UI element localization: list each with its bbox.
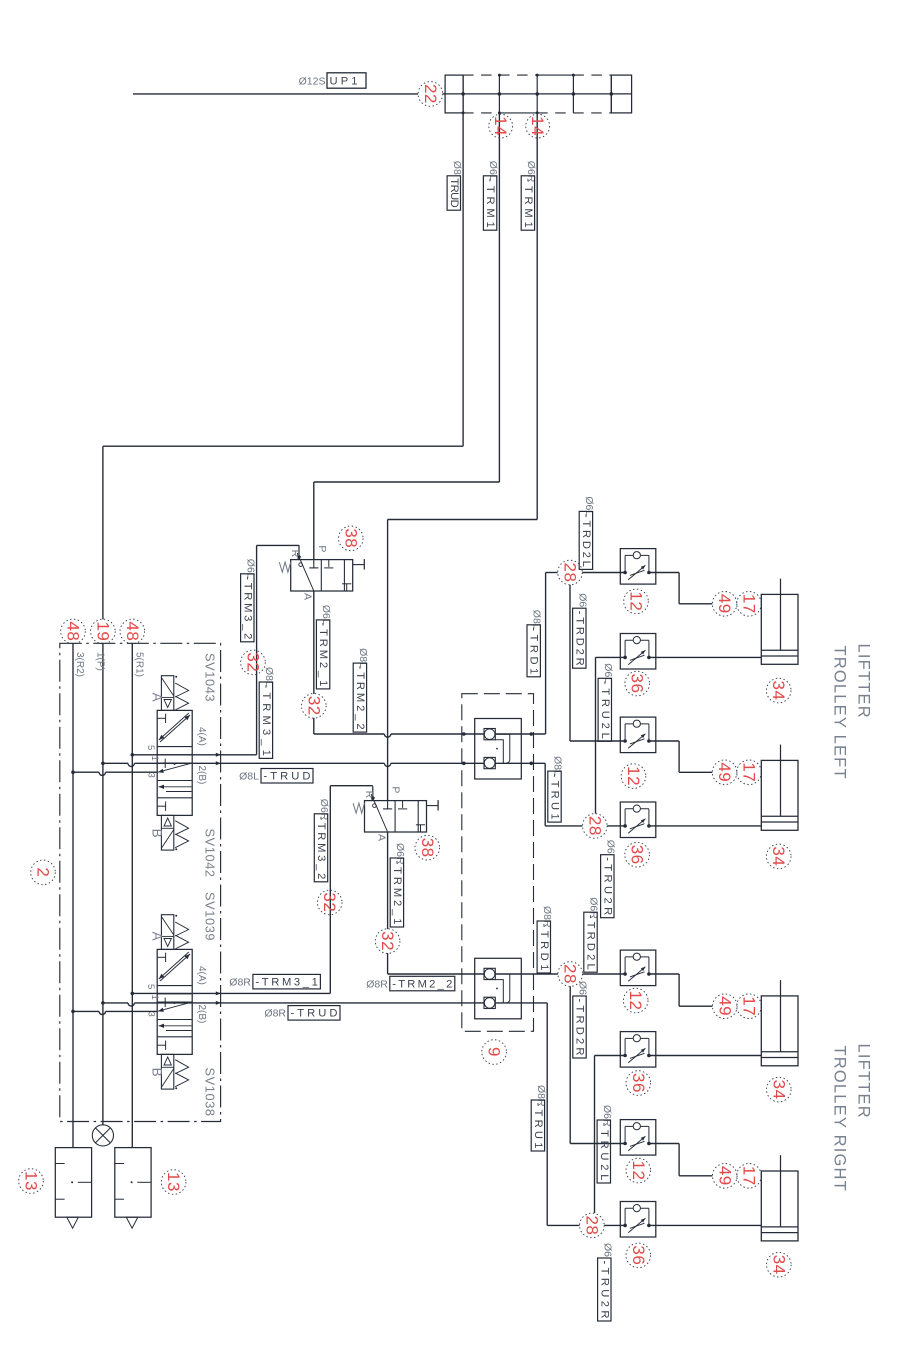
svg-text:34: 34 [769, 1255, 788, 1275]
flow control valve R-TRD2L body [620, 950, 656, 986]
wire R-TRM3_1 riser [329, 786, 331, 994]
flow control valve L-TRD2L body [620, 549, 656, 585]
svg-text:LIFTTER: LIFTTER [855, 644, 873, 719]
wire TRUD down to P header [102, 446, 104, 619]
svg-text:Ø8L: Ø8L [239, 771, 259, 783]
flow control valve R-TRU2L throttle arrow [628, 1048, 645, 1063]
wire L-TRU1 to balloon 28 [545, 825, 582, 827]
silencer left internals [55, 1163, 64, 1165]
svg-text:Ø8R: Ø8R [264, 1008, 286, 1020]
svg-text:49: 49 [715, 594, 734, 614]
valve 38 lower internal P blocked symbol [387, 801, 389, 809]
label Ø6 R-TRU2R [598, 1243, 614, 1321]
svg-text:22: 22 [421, 84, 440, 104]
flow control valve L-TRD2R bypass check [624, 724, 626, 741]
flow control valve L-TRU2R throttle arrow [628, 819, 645, 834]
wire R-TRU1 to balloon 28 [547, 1224, 579, 1226]
port 1 T symbol SV1043 [158, 762, 165, 764]
wire L-TRD2R drop [569, 585, 571, 741]
flow control valve L-TRU2L throttle arrow [628, 650, 645, 665]
valve body SV1043/SV1042 [157, 710, 192, 815]
svg-text:14: 14 [528, 116, 547, 136]
supply line to manifold [133, 93, 418, 95]
wire L-TRU1 down [544, 763, 546, 826]
svg-text:-TRM2_1: -TRM2_1 [317, 622, 329, 686]
check valve lower lower cartridge [484, 997, 495, 1008]
wire flow control to cylinder 4 cap [649, 1143, 679, 1145]
label Ø8 L-TRM2_2 [353, 648, 369, 732]
balloon 36 [626, 1071, 651, 1096]
wire R-TRU2L riser [594, 1056, 596, 1214]
check block upper internal piping [495, 734, 510, 763]
wire L-TRD2R to flow control [570, 740, 625, 742]
label Ø8 TRUD [447, 161, 463, 210]
label Ø6 L-TRD2R [573, 593, 589, 668]
crossed flow arrows SV1039 [160, 954, 190, 981]
balloon 17 [737, 994, 762, 1019]
return spring of solenoid A SV1039 [175, 922, 188, 949]
wire R-TRM2_2 down [387, 953, 389, 974]
balloon 12 [626, 1158, 651, 1183]
port 1 T symbol SV1039 [158, 1001, 165, 1003]
svg-text:1: 1 [149, 756, 160, 761]
balloon 28 fitting L-TRU [583, 814, 608, 839]
svg-text:-TRD2R: -TRD2R [573, 611, 585, 666]
svg-text:36: 36 [628, 845, 647, 865]
wire R-TRM2_2 to check block [388, 973, 484, 975]
svg-text:1: 1 [149, 995, 160, 1000]
label Ø6 R-TRD2R [573, 981, 589, 1058]
junction dots upper block [462, 732, 466, 736]
svg-text:48: 48 [123, 621, 142, 641]
flow control valve L-TRD2R body [620, 717, 656, 753]
flow control valve L-TRD2L bypass check [624, 555, 626, 572]
svg-text:SV1043: SV1043 [202, 653, 217, 702]
wire flow control to cylinder 3 rod side [649, 1055, 761, 1057]
manifold top rail [463, 74, 537, 76]
balloon 34 [766, 678, 791, 703]
wire L-TRM2_2 down [313, 718, 315, 734]
balloon 34 [766, 844, 791, 869]
silencer right internals [115, 1163, 124, 1165]
valve 38 upper internal P blocked symbol [313, 560, 315, 568]
check block upper center mark [496, 748, 498, 750]
wire flow control to cylinder 4 rod side [649, 1224, 761, 1226]
junction block enclosure 9 [462, 694, 534, 1032]
3/2 pilot valve 38 upper body [291, 560, 353, 591]
wire flow control to cylinder 1 cap [649, 572, 679, 574]
wire port5 SV1039 [131, 992, 135, 996]
label Ø8 L-TRM3_1 [259, 667, 275, 758]
svg-text:2(B): 2(B) [196, 1005, 207, 1024]
svg-text:TROLLEY RIGHT: TROLLEY RIGHT [831, 1046, 849, 1192]
plugged port symbol [92, 1125, 113, 1146]
exhaust T symbol bottom cell SV1038 [157, 1044, 165, 1046]
check block lower center mark [496, 988, 498, 990]
balloon 13 [161, 1170, 186, 1195]
wire R-TRM1 horizontal run [388, 519, 538, 521]
valve body SV1039/SV1038 [157, 949, 192, 1054]
wire flow control to cylinder 3 cap [649, 973, 679, 975]
svg-text:UP1: UP1 [330, 76, 358, 88]
svg-text:P: P [390, 786, 402, 793]
svg-text:19: 19 [93, 621, 112, 641]
flow control valve R-TRD2L bypass check [624, 957, 626, 974]
cylinder R1 body [761, 996, 798, 1066]
wire P header down [102, 643, 104, 1124]
svg-text:B: B [149, 829, 164, 838]
svg-text:32: 32 [378, 931, 397, 951]
label Ø6 L-TRM1 [483, 161, 499, 230]
balloon 49 [713, 994, 738, 1019]
svg-text:-TRM2_1: -TRM2_1 [391, 861, 403, 925]
balloon 36 [626, 1243, 651, 1268]
wire flow control to cylinder 1 rod side [649, 656, 761, 658]
svg-text:49: 49 [715, 762, 734, 782]
check valve lower upper cartridge [484, 968, 495, 979]
svg-text:Ø8R: Ø8R [229, 976, 251, 988]
wire L-TRM1 drop from manifold [498, 113, 500, 482]
svg-text:Ø8R: Ø8R [366, 978, 388, 990]
wire port1 P supply SV1039 to check block [101, 1001, 105, 1005]
flow control valve L-TRD2R connection dots [623, 739, 627, 743]
svg-text:A: A [376, 834, 388, 841]
label Ø6 L-TRM2_1 [316, 605, 332, 689]
flow control valve R-TRD2L throttle arrow [628, 967, 645, 982]
air manifold block [445, 75, 463, 113]
check valve upper lower cartridge [484, 757, 495, 768]
wire port5 SV1043 [131, 753, 135, 757]
svg-text:36: 36 [628, 674, 647, 694]
cylinder R2 body [761, 1171, 798, 1241]
balloon 49 [712, 592, 737, 617]
svg-text:R: R [289, 550, 301, 558]
svg-text:-TRU2R: -TRU2R [598, 1261, 610, 1319]
svg-text:36: 36 [629, 1073, 648, 1093]
balloon 32 fitting L-TRM2 [302, 694, 327, 719]
svg-text:2(B): 2(B) [196, 766, 207, 785]
flow control valve R-TRU2L body [620, 1032, 656, 1068]
svg-text:-TRM3_1: -TRM3_1 [260, 685, 272, 756]
wire L-TRM3_1 riser [256, 545, 258, 754]
silencer left exhaust cone [67, 1217, 79, 1228]
wire TRUD horizontal run [103, 445, 463, 447]
flow diagonal SV1042 [158, 763, 192, 772]
wire R2 exhaust header [72, 643, 74, 1147]
valve 38 upper R port stub [298, 545, 300, 559]
wire R-TRM1 down to pilot valve P [387, 520, 389, 801]
valve 38 upper pilot plunger [353, 564, 365, 566]
cylinder R2 piston [761, 1226, 798, 1228]
cylinder L2 rod [780, 745, 782, 817]
valve 38 lower spring W [353, 803, 364, 813]
wire R-TRD1 exit lower block [495, 973, 558, 975]
balloon 36 [625, 842, 650, 867]
wire R-TRD2L to flow control [583, 973, 626, 975]
label Ø8 R-TRUD [264, 1006, 340, 1021]
svg-text:-TRD1: -TRD1 [528, 627, 540, 674]
wire R-TRU2L to flow control [595, 1055, 626, 1057]
svg-text:R: R [363, 791, 375, 799]
svg-text:2: 2 [34, 867, 53, 877]
svg-text:-TRM3_2: -TRM3_2 [241, 576, 253, 639]
cylinder R1 piston [761, 1051, 798, 1053]
balloon 36 [625, 671, 650, 696]
svg-text:A: A [149, 693, 164, 702]
flow arrows SV1042 [159, 786, 192, 788]
flow control valve R-TRU2L bypass check [624, 1038, 626, 1055]
svg-text:38: 38 [418, 838, 437, 858]
exhaust T symbol top cell SV1043 [157, 717, 165, 719]
enclosure exit arrows upper [216, 753, 221, 757]
svg-text:SV1042: SV1042 [202, 829, 217, 878]
balloon 38 upper pilot valve [339, 526, 364, 551]
wire L-TRD1 riser [545, 573, 547, 735]
svg-text:-TRD2R: -TRD2R [574, 999, 586, 1056]
wire L-TRU2L riser [595, 657, 597, 813]
wire balloon 22 to manifold [443, 93, 445, 95]
svg-text:32: 32 [244, 652, 263, 672]
wire L-TRM2_1 from valve A [313, 591, 315, 694]
valve 38 lower internal blocked symbol middle [402, 801, 404, 808]
svg-text:P: P [316, 545, 328, 552]
wire R1 exhaust header [131, 643, 133, 1147]
svg-text:-TRU1: -TRU1 [532, 1103, 544, 1149]
balloon 48 fitting R2 [61, 619, 86, 644]
svg-text:-TRD1: -TRD1 [538, 924, 550, 971]
wire to cylinder 1 [760, 603, 762, 605]
flow control valve R-TRD2R bypass check [624, 1126, 626, 1143]
balloon 14 fitting R [526, 114, 550, 138]
wire TRU exit lower block [495, 1002, 547, 1004]
wire L-TRU2R to flow control [607, 825, 625, 827]
svg-text:-TRUD: -TRUD [264, 771, 311, 783]
wire R-TRD2R to flow control [570, 1143, 625, 1145]
flow control valve R-TRU2R body [620, 1202, 656, 1238]
svg-text:9: 9 [485, 1047, 504, 1057]
balloon 32 fitting L-TRM3 [241, 650, 266, 675]
svg-text:32: 32 [304, 696, 323, 716]
check block lower internal piping [495, 974, 510, 1003]
dual check valve block lower body [475, 958, 522, 1019]
svg-text:5: 5 [145, 745, 156, 750]
svg-text:14: 14 [491, 116, 510, 136]
flow control valve R-TRD2R connection dots [623, 1142, 627, 1146]
cylinder L2 body [761, 760, 798, 830]
balloon 22 manifold fitting [418, 82, 443, 107]
label Ø6 R-TRU2L [597, 1105, 613, 1183]
svg-text:12: 12 [624, 766, 643, 786]
label Ø8 R-TRU1 [531, 1085, 547, 1151]
valve 38 upper flow diagonal R-A [297, 553, 313, 590]
svg-text:5(R1): 5(R1) [134, 652, 145, 677]
svg-text:12: 12 [627, 591, 646, 611]
svg-text:17: 17 [740, 996, 759, 1016]
balloon 17 [737, 592, 762, 617]
flow control valve L-TRU2L body [620, 634, 656, 670]
cylinder L1 rod [780, 579, 782, 651]
balloon 9 junction block [482, 1040, 507, 1065]
wire port1 P supply SV1043 to check block [101, 762, 105, 766]
svg-text:34: 34 [769, 681, 788, 701]
balloon 17 [737, 760, 762, 785]
solenoid pilot B of SV1038 [161, 1054, 173, 1089]
svg-text:34: 34 [769, 846, 788, 866]
balloon 48 fitting R1 [120, 619, 145, 644]
balloon 13 [19, 1169, 44, 1194]
svg-text:SV1039: SV1039 [202, 892, 217, 941]
wire port3 SV1043 [71, 770, 75, 774]
wire flow control to cylinder 2 rod side [649, 825, 761, 827]
label Ø8 R-TRD1 [537, 906, 553, 973]
label Ø6 L-TRU2R [601, 840, 617, 918]
wire to pilot valve R upper [257, 544, 299, 546]
wire TRD exit upper block [495, 733, 545, 735]
valve station enclosure [60, 643, 221, 1121]
label Ø6 R-TRM2_1 [390, 843, 406, 927]
wire R-TRM1 drop from manifold [536, 113, 538, 520]
manifold center gallery [445, 93, 631, 95]
cylinder R1 rod [780, 980, 782, 1052]
svg-text:17: 17 [740, 1166, 759, 1186]
svg-text:-TRM2_2: -TRM2_2 [354, 666, 366, 730]
valve 38 lower internal blocked symbol right [420, 825, 422, 832]
svg-text:34: 34 [769, 1080, 788, 1100]
svg-text:12: 12 [629, 1161, 648, 1181]
svg-text:-TRUD: -TRUD [291, 1008, 338, 1020]
balloon 32 fitting R-TRM2 [375, 929, 400, 954]
svg-text:12: 12 [626, 991, 645, 1011]
wire flow control to cylinder 2 cap [649, 740, 679, 742]
svg-text:3(R2): 3(R2) [74, 652, 85, 677]
svg-text:-TRU2R: -TRU2R [601, 857, 613, 915]
wire R-TRD2R drop [569, 986, 571, 1143]
balloon 28 fitting R-TRD [558, 962, 583, 987]
label Ø8 L-TRU1 [548, 756, 564, 822]
flow control valve R-TRU2L connection dots [623, 1054, 627, 1058]
label Ø8 R-TRM3_1 [229, 974, 320, 989]
svg-text:49: 49 [715, 1166, 734, 1186]
balloon 17 [737, 1164, 762, 1189]
wire R-TRU2R to flow control [604, 1224, 625, 1226]
enclosure exit arrows lower [216, 991, 221, 995]
svg-text:Ø6: Ø6 [577, 981, 589, 995]
flow control valve L-TRD2L throttle arrow [628, 565, 645, 580]
balloon 28 fitting L-TRD [558, 560, 583, 585]
flow control valve L-TRU2L connection dots [623, 656, 627, 660]
svg-text:B: B [149, 1068, 164, 1077]
manifold junction dots [461, 92, 465, 96]
flow control valve R-TRU2R throttle arrow [628, 1218, 645, 1233]
label Ø8 L-TRUD [239, 769, 313, 784]
valve 38 upper internal blocked symbol middle [328, 560, 330, 567]
label Ø6 R-TRM1 [521, 161, 537, 230]
wire R-TRU1 down [546, 1003, 548, 1226]
svg-text:-TRM3_1: -TRM3_1 [255, 976, 318, 988]
svg-text:49: 49 [715, 996, 734, 1016]
balloon 12 [621, 764, 646, 789]
svg-text:A: A [302, 593, 314, 600]
svg-text:36: 36 [629, 1245, 648, 1265]
label Ø8 R-TRM2_2 [366, 976, 455, 991]
flow control valve L-TRU2L bypass check [624, 640, 626, 657]
solenoid pilot A of SV1039 [161, 915, 173, 950]
flow control valve L-TRU2R connection dots [623, 824, 627, 828]
flow control valve R-TRU2R bypass check [624, 1208, 626, 1225]
label Ø6 R-TRM3_2 [314, 799, 330, 882]
flow control valve L-TRD2R throttle arrow [628, 734, 645, 749]
svg-text:13: 13 [22, 1171, 41, 1191]
svg-text:TROLLEY LEFT: TROLLEY LEFT [831, 646, 849, 780]
wire TRU exit upper block [495, 762, 545, 764]
wire L-TRM1 down to pilot valve P [313, 482, 315, 560]
svg-text:38: 38 [341, 528, 360, 548]
svg-text:-TRU1: -TRU1 [549, 774, 561, 820]
svg-text:Ø6: Ø6 [576, 593, 588, 607]
valve 38 lower R port stub [372, 786, 374, 800]
valve 38 upper internal blocked symbol right [346, 584, 348, 591]
svg-text:1(P): 1(P) [95, 652, 106, 671]
label Ø8 L-TRD1 [527, 610, 543, 677]
wire L-TRM2_2 to check block [314, 733, 385, 735]
flow control valve R-TRD2R throttle arrow [628, 1136, 645, 1151]
silencer left body [55, 1148, 91, 1218]
svg-text:28: 28 [582, 1215, 601, 1235]
cylinder L2 piston [761, 815, 798, 817]
exhaust T symbol bottom cell SV1042 [157, 805, 165, 807]
flow control valve R-TRD2R body [620, 1120, 656, 1156]
balloon 2 valve station [31, 860, 56, 885]
svg-text:13: 13 [164, 1172, 183, 1192]
svg-text:28: 28 [585, 816, 604, 836]
svg-text:17: 17 [740, 594, 759, 614]
svg-text:4(A): 4(A) [196, 727, 207, 746]
flow control valve R-TRD2L connection dots [623, 972, 627, 976]
balloon 38 lower pilot valve [415, 835, 440, 860]
solenoid pilot B of SV1042 [161, 815, 173, 850]
svg-text:32: 32 [320, 892, 339, 912]
manifold bottom rail [463, 112, 499, 114]
wire L-TRD2L to flow control [582, 572, 625, 574]
svg-text:3: 3 [146, 773, 157, 778]
return spring of solenoid B SV1038 [175, 1060, 188, 1087]
balloon 12 [624, 589, 649, 614]
svg-text:Ø6: Ø6 [601, 1243, 613, 1257]
balloon 12 [623, 988, 648, 1013]
cylinder L1 body [761, 594, 798, 664]
balloon 14 fitting L [489, 114, 513, 138]
label Ø6 L-TRU2L [598, 663, 614, 741]
wire port3 SV1039 [71, 1010, 75, 1014]
dual check valve block upper body [475, 719, 522, 780]
svg-text:3: 3 [146, 1012, 157, 1017]
return spring of solenoid B SV1042 [175, 821, 188, 848]
svg-text:28: 28 [561, 563, 580, 583]
flow diagonal SV1038 [158, 1002, 192, 1011]
wire TRUD drop from manifold [462, 113, 464, 446]
svg-text:48: 48 [64, 621, 83, 641]
svg-text:5: 5 [145, 984, 156, 989]
svg-text:Ø6: Ø6 [604, 840, 616, 854]
check valve upper upper cartridge [484, 729, 495, 740]
wire L-TRD1 to balloon 28 [546, 572, 558, 574]
balloon 49 [712, 760, 737, 785]
3/2 pilot valve 38 lower body [365, 801, 427, 832]
svg-text:TRUD: TRUD [448, 178, 460, 207]
wire R-TRM2_1 from valve A [387, 832, 389, 929]
label Ø6 L-TRM3_2 [241, 559, 257, 642]
silencer right exhaust cone [126, 1217, 138, 1228]
